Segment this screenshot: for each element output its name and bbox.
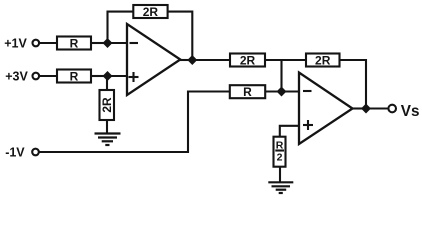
terminal -1V	[5, 146, 39, 160]
svg-text:2R: 2R	[143, 5, 159, 19]
node C	[187, 55, 197, 65]
svg-text:Vs: Vs	[401, 103, 420, 120]
wire U2 non-inverting input to R/2	[280, 126, 299, 137]
wire series 2R to feedback 2R (through T junction)	[265, 59, 306, 61]
wire series R to node D	[265, 90, 281, 92]
terminal +1V	[4, 37, 39, 51]
wire node A to U1 inverting input	[108, 42, 128, 44]
wire +3V terminal to R	[40, 75, 57, 77]
ground	[95, 134, 121, 146]
wire U2 output to node E	[352, 107, 366, 109]
svg-text:R: R	[70, 37, 79, 51]
wire +1V terminal to R	[40, 42, 57, 44]
ground	[268, 182, 293, 193]
svg-text:+3V: +3V	[5, 70, 28, 84]
svg-text:2: 2	[277, 151, 283, 163]
wire shunt 2R to ground	[106, 120, 108, 134]
svg-text:2R: 2R	[240, 54, 256, 68]
wire R/2 to ground	[279, 167, 281, 183]
node E	[361, 104, 371, 114]
wire U1 feedback: node A up and across	[108, 12, 134, 43]
terminal +3V	[5, 70, 39, 84]
wire U1 output to node C	[180, 59, 192, 61]
svg-text:R: R	[70, 70, 79, 84]
resistor R (top input)	[57, 37, 91, 51]
svg-text:-1V: -1V	[5, 146, 25, 160]
terminal Vs	[388, 103, 419, 120]
wire node C to series 2R	[192, 59, 230, 61]
wire node D to U2 inverting input	[282, 90, 300, 92]
op-amp U2	[299, 73, 353, 145]
resistor R (series to U2)	[230, 85, 265, 99]
wire node E to Vs terminal	[366, 107, 388, 109]
wire node B to U1 non-inverting input	[108, 75, 128, 77]
node A	[103, 38, 113, 48]
resistor 2R (feedback U2)	[306, 54, 340, 68]
node B	[103, 71, 113, 81]
op-amp U1	[127, 24, 180, 95]
resistor R/2	[274, 137, 286, 167]
svg-text:2R: 2R	[315, 54, 331, 68]
wire R to node B	[91, 75, 104, 77]
wire U2 feedback down to node E	[340, 60, 367, 109]
wire U1 feedback: across and down to node C	[168, 12, 193, 61]
wire R to node A	[91, 42, 104, 44]
svg-text:R: R	[243, 85, 252, 99]
wire T junction down to node D	[280, 60, 282, 92]
resistor 2R (shunt, vertical)	[100, 90, 115, 120]
svg-text:2R: 2R	[100, 97, 114, 113]
node D	[277, 87, 287, 97]
resistor R (second input)	[57, 70, 91, 84]
wire node B down to shunt 2R	[106, 76, 108, 90]
wire -1V terminal up to series R	[39, 92, 230, 153]
resistor 2R (series)	[230, 54, 265, 68]
svg-text:+1V: +1V	[4, 37, 27, 51]
resistor 2R (feedback U1)	[133, 5, 167, 19]
